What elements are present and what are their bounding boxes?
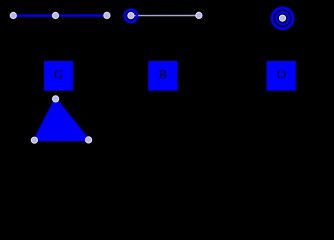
triangle graph fill: [34, 99, 88, 140]
box B: [148, 61, 177, 91]
node T1 (top): [53, 96, 59, 102]
svg-text:G: G: [54, 68, 63, 82]
node P2: [52, 12, 58, 18]
node Q2: [196, 12, 202, 18]
svg-text:B: B: [159, 68, 167, 82]
node Q1: [128, 13, 134, 19]
node R1: [279, 15, 285, 21]
outer ring of double-circled node: [272, 8, 293, 29]
inner ring of double-circled node: [276, 12, 288, 24]
box G: [44, 61, 73, 91]
box O: [267, 61, 296, 91]
ring around node Q1: [125, 10, 137, 22]
node P3: [104, 12, 110, 18]
node P1: [10, 12, 16, 18]
node T2 (bottom left): [31, 137, 37, 143]
wire: thin edge of second graph: [131, 15, 199, 17]
node T3 (bottom right): [86, 137, 92, 143]
svg-text:O: O: [277, 68, 286, 82]
wire: path graph edge 1-2-3: [13, 14, 107, 16]
